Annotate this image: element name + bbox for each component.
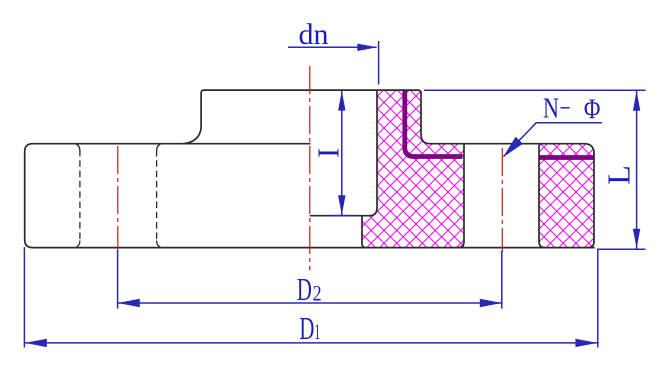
flange right edge <box>588 154 594 248</box>
svg-text:Φ: Φ <box>584 94 601 126</box>
dim L extension top <box>424 89 646 91</box>
bolt hole left wall (section) <box>458 144 464 248</box>
dim D1 extension right <box>597 250 599 348</box>
dim D1 line <box>25 342 598 344</box>
dim L extension bottom <box>597 248 646 250</box>
hatch fill of sectioned flange right block (region B) <box>537 142 596 250</box>
arrow I bottom <box>338 195 345 215</box>
arrow L bottom <box>633 229 640 249</box>
dim dn extension line <box>378 41 380 85</box>
bore wall and socket bottom line (section) <box>310 92 377 216</box>
svg-text:1: 1 <box>315 319 321 344</box>
flange top face line (section side) <box>430 144 595 154</box>
dim I tick overlap <box>330 215 354 217</box>
lining layer thick band (right block) <box>539 155 594 160</box>
flange outer profile left edge and bottom face line <box>25 144 594 248</box>
bolt hole right wall (section) <box>539 144 545 248</box>
dim L line <box>636 91 638 249</box>
svg-text:I: I <box>312 148 346 158</box>
svg-text:dn: dn <box>299 18 329 51</box>
arrow D2 left <box>118 299 140 307</box>
bore step wall below socket (section) <box>362 216 366 248</box>
hidden dashed line bolt hole right edge <box>156 150 158 242</box>
bolt circle centerline left <box>117 146 119 251</box>
svg-text:N: N <box>543 93 559 125</box>
dim D2 extension left <box>117 250 119 309</box>
main centerline <box>309 66 311 271</box>
hidden dashed line bolt hole left edge <box>79 150 81 242</box>
boss top face line <box>204 90 421 93</box>
svg-text:2: 2 <box>313 281 322 306</box>
dim D2 extension right <box>501 251 503 309</box>
dim D1 extension left <box>23 247 25 348</box>
lining layer thick L-line (left section) <box>405 90 463 157</box>
arrow D1 left <box>25 339 47 347</box>
arrow N-Phi leader <box>503 137 523 158</box>
bolt circle centerline right <box>501 148 503 252</box>
label N-Phi leader line <box>504 123 602 157</box>
svg-text:L: L <box>600 165 636 185</box>
hatch fill of sectioned flange (region A) <box>360 88 466 250</box>
dim D2 line <box>118 302 502 304</box>
arrow I top <box>338 91 345 111</box>
arrow dn right <box>357 44 377 51</box>
dim dn line <box>288 46 377 48</box>
svg-text:D: D <box>299 310 314 346</box>
svg-text:D: D <box>297 271 312 307</box>
arrow L top <box>633 91 640 111</box>
dim I line <box>341 91 343 215</box>
svg-text:−: − <box>560 93 571 125</box>
boss silhouette left with base fillet <box>183 90 204 144</box>
arrow D2 right <box>480 299 502 307</box>
boss right wall and fillet to face (section) <box>421 93 430 144</box>
arrow D1 right <box>575 339 597 347</box>
